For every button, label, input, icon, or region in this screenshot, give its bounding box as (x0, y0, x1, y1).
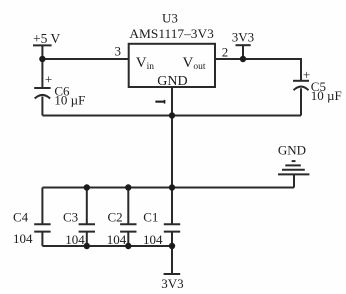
op-amp U3 regulator box (129, 44, 215, 87)
wire 3V3 bottom stem (171, 246, 173, 274)
wire ground rail 2 (42, 187, 294, 189)
wire C6 top lead (41, 59, 43, 87)
svg-text:10 µF: 10 µF (54, 92, 85, 107)
capacitor C4 top plate (34, 223, 50, 225)
power symbol 3V3 top bar (236, 44, 251, 46)
node junction dot rail1 GND (169, 112, 175, 118)
wire C5 bottom lead (300, 88, 302, 115)
power symbol +5V bar (33, 44, 52, 46)
wire GND pin stem (171, 87, 173, 116)
wire C4 top lead (41, 188, 43, 225)
capacitor C4 bottom plate (34, 231, 50, 233)
wire pin 2 output to corner (215, 59, 301, 80)
capacitor C1 bottom plate (164, 231, 180, 233)
svg-text:GND: GND (278, 143, 306, 158)
capacitor C3 top plate (79, 223, 95, 225)
node junction dot +5V (39, 56, 45, 62)
svg-text:U3: U3 (162, 10, 178, 25)
capacitor C3 bottom plate (79, 231, 95, 233)
capacitor C5 top plate (293, 80, 309, 82)
svg-text:+5 V: +5 V (33, 31, 60, 46)
capacitor C6 top plate (34, 87, 50, 89)
svg-text:C1: C1 (143, 209, 158, 224)
svg-text:C4: C4 (13, 209, 29, 224)
wire ground rail 1 (42, 115, 301, 117)
svg-text:3: 3 (115, 44, 122, 59)
capacitor C5 curved bottom plate (294, 87, 309, 91)
wire +5V stem (41, 45, 43, 59)
svg-text:AMS1117–3V3: AMS1117–3V3 (129, 26, 214, 41)
node junction dot rail3 C1 (169, 243, 175, 249)
wire 3V3 stem top (242, 45, 244, 59)
wire C3 bottom lead (86, 232, 88, 246)
svg-text:+: + (45, 72, 52, 87)
svg-text:+: + (303, 67, 310, 82)
node junction dot rail2 C3 (84, 184, 90, 190)
svg-text:GND: GND (157, 74, 187, 89)
ground symbol GND bar 2 (285, 164, 301, 166)
power symbol 3V3 bottom bar (164, 273, 181, 275)
ground symbol GND bar 4 (278, 173, 309, 175)
svg-text:104: 104 (65, 232, 85, 247)
svg-text:C3: C3 (63, 209, 78, 224)
svg-text:3V3: 3V3 (232, 29, 254, 44)
wire 3V3 rail 3 (42, 245, 172, 247)
svg-text:10 µF: 10 µF (311, 88, 342, 103)
wire C6 bottom lead (41, 97, 43, 116)
wire GND stem to rail 2 (171, 116, 173, 188)
wire C1 bottom lead (171, 232, 173, 246)
svg-text:104: 104 (107, 232, 127, 247)
node junction dot rail3 C2 (125, 243, 131, 249)
pin number 1 rotated (155, 100, 165, 104)
ground symbol GND bar 1 (292, 160, 296, 162)
wire C1 top lead (171, 188, 173, 225)
node junction dot rail3 C3 (84, 243, 90, 249)
node junction dot rail2 C1 (169, 184, 175, 190)
capacitor C1 top plate (164, 223, 180, 225)
node junction dot 3V3 top (240, 56, 246, 62)
wire from +5V node to pin 3 of U1 (42, 58, 129, 60)
ground symbol GND bar 3 (282, 169, 305, 171)
wire C2 bottom lead (127, 232, 129, 246)
wire ground symbol stem (293, 174, 295, 187)
svg-text:Vin: Vin (136, 55, 154, 72)
svg-text:Vout: Vout (183, 55, 206, 72)
capacitor C2 bottom plate (120, 231, 136, 233)
svg-text:104: 104 (143, 232, 163, 247)
svg-text:2: 2 (222, 44, 229, 59)
node junction dot rail2 C2 (125, 184, 131, 190)
wire C2 top lead (127, 188, 129, 225)
capacitor C2 top plate (120, 223, 136, 225)
wire C3 top lead (86, 188, 88, 225)
svg-text:104: 104 (13, 231, 33, 246)
capacitor C6 curved bottom plate (35, 95, 50, 99)
wire C4 bottom lead (41, 232, 43, 246)
svg-text:3V3: 3V3 (161, 276, 183, 291)
svg-text:C2: C2 (108, 209, 123, 224)
